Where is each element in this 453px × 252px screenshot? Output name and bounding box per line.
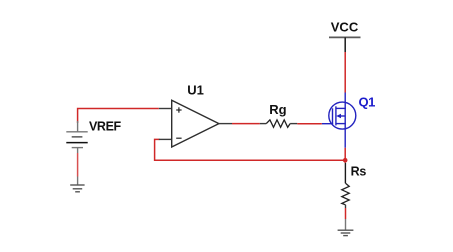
wire Rg to Q1 gate: [297, 123, 322, 125]
wire Rs to ground: [345, 208, 347, 219]
op-amp U1: [159, 100, 232, 147]
svg-text:Q1: Q1: [359, 94, 376, 109]
wire op-amp output to Rg: [232, 123, 260, 125]
wire VREF negative to ground: [77, 153, 79, 177]
battery VREF: [66, 121, 87, 153]
node junction dot: [343, 158, 348, 163]
svg-text:Rs: Rs: [351, 165, 367, 179]
wire VCC to Q1 drain: [344, 52, 346, 93]
resistor Rg: [260, 120, 298, 127]
ground (below VREF): [70, 177, 84, 192]
svg-text:VREF: VREF: [89, 119, 122, 133]
wire feedback node to op-amp inverting input: [155, 139, 346, 160]
resistor Rs: [342, 163, 349, 208]
ground (below Rs): [338, 219, 354, 236]
power VCC symbol: [329, 19, 361, 52]
svg-text:Rg: Rg: [269, 102, 286, 117]
transistor Q1 (N-MOSFET): [322, 93, 356, 148]
svg-text:U1: U1: [187, 83, 204, 98]
wire Q1 source to node: [344, 148, 346, 163]
wire VREF to op-amp non-inverting input: [78, 109, 159, 124]
svg-text:VCC: VCC: [331, 19, 359, 34]
